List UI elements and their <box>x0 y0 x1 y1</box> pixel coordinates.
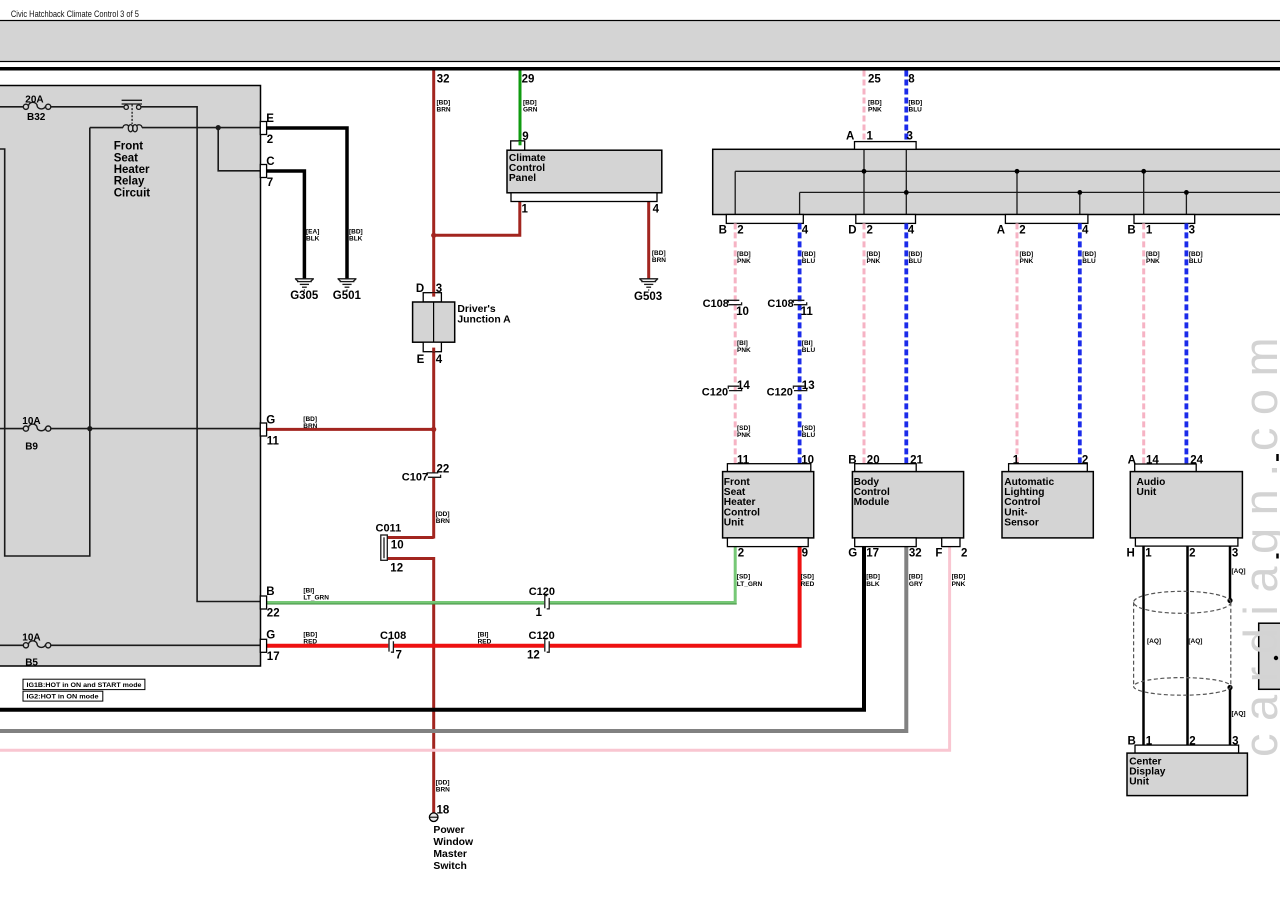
svg-text:BRN: BRN <box>436 518 450 525</box>
svg-text:E: E <box>266 113 274 125</box>
svg-text:PNK: PNK <box>952 581 966 588</box>
svg-text:10: 10 <box>801 454 814 466</box>
svg-text:Panel: Panel <box>509 173 536 184</box>
svg-text:[BD]: [BD] <box>303 632 317 639</box>
svg-text:[BD]: [BD] <box>303 416 317 423</box>
svg-text:3: 3 <box>1232 548 1238 560</box>
svg-text:B: B <box>1127 224 1135 236</box>
svg-text:[BD]: [BD] <box>1082 251 1096 258</box>
svg-text:2: 2 <box>737 224 743 236</box>
svg-text:[BD]: [BD] <box>652 250 666 257</box>
svg-text:[BD]: [BD] <box>868 99 882 106</box>
svg-text:1: 1 <box>867 130 874 142</box>
svg-text:BLU: BLU <box>909 107 923 114</box>
svg-text:[AQ]: [AQ] <box>1147 638 1161 645</box>
svg-text:[BD]: [BD] <box>1020 251 1034 258</box>
svg-text:G: G <box>266 630 275 642</box>
svg-text:[BD]: [BD] <box>437 99 451 106</box>
svg-text:BLK: BLK <box>306 236 320 243</box>
svg-text:BLU: BLU <box>802 432 816 439</box>
svg-text:10: 10 <box>391 540 404 552</box>
svg-text:2: 2 <box>961 548 967 560</box>
svg-text:32: 32 <box>909 548 922 560</box>
svg-text:[BD]: [BD] <box>867 251 881 258</box>
svg-text:RED: RED <box>303 639 317 646</box>
svg-text:7: 7 <box>267 177 273 189</box>
svg-text:LT_GRN: LT_GRN <box>737 581 763 588</box>
svg-text:BLU: BLU <box>1082 258 1096 265</box>
svg-text:Relay: Relay <box>114 176 145 188</box>
svg-text:BLK: BLK <box>349 236 363 243</box>
svg-text:4: 4 <box>802 224 809 236</box>
svg-text:[BD]: [BD] <box>737 251 751 258</box>
svg-text:PNK: PNK <box>737 258 751 265</box>
svg-text:[AQ]: [AQ] <box>1232 568 1246 575</box>
svg-text:C120: C120 <box>529 586 555 598</box>
svg-text:G305: G305 <box>290 290 319 302</box>
svg-text:BRN: BRN <box>436 787 450 794</box>
svg-text:C108: C108 <box>380 630 406 642</box>
svg-text:BLU: BLU <box>909 258 923 265</box>
svg-text:9: 9 <box>802 548 808 560</box>
svg-text:[DD]: [DD] <box>436 511 450 518</box>
svg-text:[BI]: [BI] <box>802 340 813 347</box>
svg-text:C011: C011 <box>376 523 402 535</box>
svg-text:B: B <box>266 586 274 598</box>
svg-text:1: 1 <box>1146 224 1153 236</box>
svg-text:[BD]: [BD] <box>802 251 816 258</box>
svg-text:Module: Module <box>854 497 890 508</box>
svg-text:18: 18 <box>437 805 450 817</box>
svg-text:B9: B9 <box>25 442 38 453</box>
svg-text:1: 1 <box>536 607 543 619</box>
svg-text:[AQ]: [AQ] <box>1188 638 1202 645</box>
svg-text:A: A <box>846 130 854 142</box>
svg-text:25: 25 <box>868 74 881 86</box>
svg-text:IG2:HOT in ON mode: IG2:HOT in ON mode <box>27 695 100 701</box>
svg-text:D: D <box>416 283 424 295</box>
svg-text:17: 17 <box>267 651 280 663</box>
svg-text:PNK: PNK <box>737 347 751 354</box>
svg-text:[EA]: [EA] <box>306 229 319 236</box>
svg-text:G503: G503 <box>634 291 662 303</box>
svg-text:20: 20 <box>867 454 880 466</box>
svg-text:20A: 20A <box>25 94 43 105</box>
svg-text:[BD]: [BD] <box>523 99 537 106</box>
svg-text:4: 4 <box>1082 224 1089 236</box>
svg-text:IG1B:HOT in ON and START mode: IG1B:HOT in ON and START mode <box>27 683 143 689</box>
svg-text:Front: Front <box>114 141 144 153</box>
svg-text:Master: Master <box>433 849 467 860</box>
svg-text:BLU: BLU <box>1189 258 1203 265</box>
svg-text:12: 12 <box>390 563 403 575</box>
svg-text:B: B <box>1128 736 1136 748</box>
svg-text:Driver's: Driver's <box>457 304 496 315</box>
svg-text:7: 7 <box>396 650 402 662</box>
svg-text:14: 14 <box>1146 454 1159 466</box>
svg-text:G: G <box>848 548 857 560</box>
svg-text:RED: RED <box>801 581 815 588</box>
svg-text:32: 32 <box>437 74 450 86</box>
svg-text:9: 9 <box>522 131 528 143</box>
svg-text:Unit: Unit <box>724 518 744 529</box>
svg-text:2: 2 <box>1019 224 1025 236</box>
svg-text:[BD]: [BD] <box>909 251 923 258</box>
svg-text:[BD]: [BD] <box>1189 251 1203 258</box>
svg-text:22: 22 <box>267 607 280 619</box>
svg-text:A: A <box>1128 454 1136 466</box>
svg-text:BLU: BLU <box>802 258 816 265</box>
svg-text:PNK: PNK <box>868 107 882 114</box>
svg-text:C108: C108 <box>767 298 793 310</box>
svg-text:1: 1 <box>522 203 529 215</box>
svg-text:B: B <box>719 224 727 236</box>
svg-text:11: 11 <box>737 454 750 466</box>
svg-text:[BD]: [BD] <box>349 229 363 236</box>
svg-text:Seat: Seat <box>114 152 138 164</box>
svg-text:2: 2 <box>1189 736 1195 748</box>
svg-text:RED: RED <box>478 639 492 646</box>
svg-text:22: 22 <box>437 464 450 476</box>
svg-text:21: 21 <box>910 454 923 466</box>
svg-text:[DD]: [DD] <box>436 780 450 787</box>
svg-text:Unit: Unit <box>1137 487 1157 498</box>
svg-text:17: 17 <box>866 548 879 560</box>
svg-text:1: 1 <box>1013 454 1020 466</box>
svg-text:C120: C120 <box>702 386 728 398</box>
svg-text:10: 10 <box>736 306 749 318</box>
svg-text:Sensor: Sensor <box>1004 518 1039 529</box>
svg-text:G501: G501 <box>333 290 362 302</box>
svg-text:[BI]: [BI] <box>303 588 314 595</box>
svg-text:4: 4 <box>653 203 660 215</box>
svg-text:PNK: PNK <box>867 258 881 265</box>
svg-text:A: A <box>997 224 1005 236</box>
svg-text:12: 12 <box>527 650 540 662</box>
svg-text:10A: 10A <box>22 633 40 644</box>
svg-text:[SD]: [SD] <box>737 425 750 432</box>
svg-text:D: D <box>848 224 856 236</box>
svg-text:C108: C108 <box>703 298 729 310</box>
svg-text:13: 13 <box>802 380 815 392</box>
svg-text:H: H <box>1127 548 1135 560</box>
svg-text:PNK: PNK <box>1020 258 1034 265</box>
svg-text:B5: B5 <box>25 658 38 669</box>
svg-text:3: 3 <box>1189 224 1195 236</box>
svg-text:11: 11 <box>267 436 280 448</box>
svg-text:B: B <box>848 454 856 466</box>
svg-text:BRN: BRN <box>303 423 317 430</box>
svg-text:1: 1 <box>1145 548 1152 560</box>
svg-text:BRN: BRN <box>437 107 451 114</box>
svg-text:B32: B32 <box>27 112 46 123</box>
svg-text:C107: C107 <box>402 471 428 483</box>
svg-text:11: 11 <box>801 306 814 318</box>
svg-text:[BD]: [BD] <box>866 574 880 581</box>
svg-text:2: 2 <box>267 134 273 146</box>
svg-text:Civic Hatchback Climate Contro: Civic Hatchback Climate Control 3 of 5 <box>11 9 139 19</box>
svg-text:Switch: Switch <box>433 861 467 872</box>
svg-text:GRN: GRN <box>523 107 538 114</box>
svg-text:1: 1 <box>1146 736 1153 748</box>
svg-text:2: 2 <box>738 548 744 560</box>
svg-text:LT_GRN: LT_GRN <box>303 595 329 602</box>
svg-text:Heater: Heater <box>114 164 150 176</box>
svg-text:BLK: BLK <box>866 581 880 588</box>
svg-text:C120: C120 <box>767 386 793 398</box>
svg-text:[BD]: [BD] <box>952 574 966 581</box>
svg-text:BRN: BRN <box>652 257 666 264</box>
svg-text:E: E <box>417 354 425 366</box>
svg-text:24: 24 <box>1190 454 1203 466</box>
svg-text:4: 4 <box>436 354 443 366</box>
svg-text:C: C <box>266 156 274 168</box>
svg-text:[BD]: [BD] <box>909 574 923 581</box>
svg-text:4: 4 <box>908 224 915 236</box>
svg-text:[AQ]: [AQ] <box>1232 711 1246 718</box>
svg-text:cardiagn.com: cardiagn.com <box>1234 325 1280 757</box>
svg-text:10A: 10A <box>22 416 40 427</box>
svg-text:Power: Power <box>433 825 464 836</box>
svg-text:[BI]: [BI] <box>478 632 489 639</box>
svg-text:3: 3 <box>907 130 913 142</box>
svg-text:Unit: Unit <box>1129 777 1149 788</box>
svg-text:PNK: PNK <box>1146 258 1160 265</box>
svg-text:3: 3 <box>1232 736 1238 748</box>
svg-text:[SD]: [SD] <box>801 574 814 581</box>
svg-text:14: 14 <box>737 380 750 392</box>
svg-text:[SD]: [SD] <box>737 574 750 581</box>
svg-text:Circuit: Circuit <box>114 187 151 199</box>
svg-text:F: F <box>935 548 942 560</box>
svg-text:[BI]: [BI] <box>737 340 748 347</box>
svg-text:3: 3 <box>436 283 442 295</box>
svg-text:PNK: PNK <box>737 432 751 439</box>
svg-text:[BD]: [BD] <box>909 99 923 106</box>
svg-text:GRY: GRY <box>909 581 924 588</box>
svg-text:2: 2 <box>1189 548 1195 560</box>
svg-text:C120: C120 <box>529 630 555 642</box>
svg-text:8: 8 <box>908 74 915 86</box>
svg-text:2: 2 <box>1082 454 1088 466</box>
svg-text:BLU: BLU <box>802 347 816 354</box>
svg-text:[BD]: [BD] <box>1146 251 1160 258</box>
svg-text:29: 29 <box>522 74 535 86</box>
svg-text:2: 2 <box>867 224 873 236</box>
svg-text:[SD]: [SD] <box>802 425 815 432</box>
svg-text:Junction A: Junction A <box>457 314 511 325</box>
svg-text:G: G <box>266 414 275 426</box>
svg-text:Window: Window <box>433 837 474 848</box>
